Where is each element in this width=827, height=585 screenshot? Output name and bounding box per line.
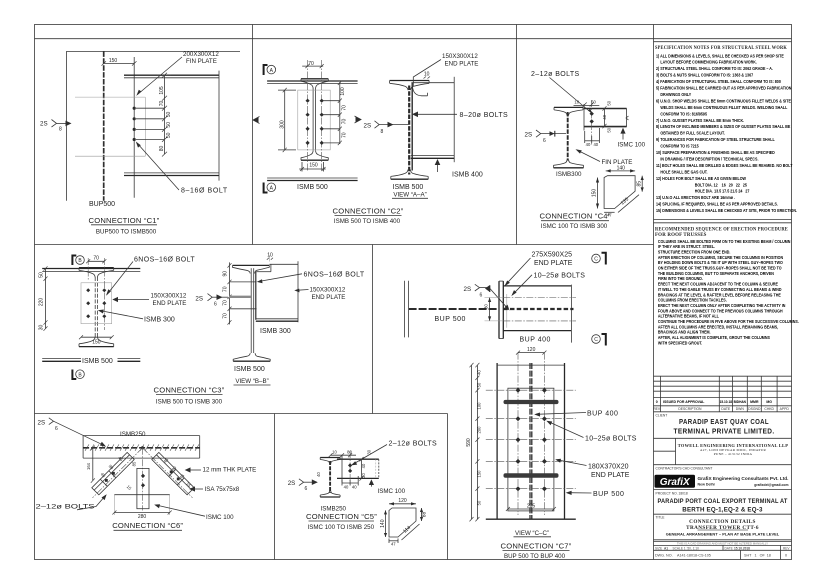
svg-text:15.10.18: 15.10.18 bbox=[720, 400, 733, 404]
revision table vertical lines bbox=[661, 376, 778, 412]
top row bottom line bbox=[35, 244, 654, 246]
beam end verticals bbox=[82, 436, 84, 459]
svg-text:70: 70 bbox=[222, 313, 228, 319]
svg-text:ISMB 500: ISMB 500 bbox=[393, 184, 424, 191]
ISMB500 plan beam top flange lines bbox=[267, 80, 358, 82]
svg-text:PROJECT NO. 18018: PROJECT NO. 18018 bbox=[656, 491, 688, 495]
ISMB300 web dashed bbox=[567, 112, 569, 161]
dim extension verticals for 280 bbox=[113, 495, 115, 515]
towell box internal cells bbox=[675, 438, 677, 464]
leader arrow to fin plate bbox=[138, 57, 183, 95]
ISMB500 beam bottom flange bbox=[124, 172, 219, 174]
svg-text:590: 590 bbox=[466, 438, 472, 447]
svg-text:2S: 2S bbox=[40, 121, 48, 128]
svg-text:MG: MG bbox=[766, 400, 772, 404]
svg-text:80: 80 bbox=[347, 450, 352, 455]
divider C5|C7 bbox=[447, 414, 449, 560]
svg-text:9) TOLERANCES FOR FABRICATION: 9) TOLERANCES FOR FABRICATION OF STEEL S… bbox=[656, 137, 775, 142]
svg-text:BUP 500 TO BUP 400: BUP 500 TO BUP 400 bbox=[504, 553, 566, 560]
dim 150 left bbox=[597, 178, 599, 209]
svg-text:DWN: DWN bbox=[736, 407, 745, 411]
ISMB500 beam top flange bbox=[124, 74, 219, 76]
svg-text:100: 100 bbox=[477, 402, 482, 410]
bolt row centerlines bbox=[486, 389, 576, 391]
dim 590 outer bbox=[471, 365, 473, 519]
right dim chain bbox=[339, 82, 341, 144]
svg-text:GrafiX Engineering Consultants: GrafiX Engineering Consultants Pvt. Ltd. bbox=[698, 476, 789, 481]
svg-text:GrafiX: GrafiX bbox=[660, 477, 691, 488]
bolts 10-25dia bbox=[516, 388, 547, 492]
svg-text:47: 47 bbox=[391, 541, 396, 546]
section bottom flange tee bbox=[79, 346, 114, 348]
left small dim 164 bbox=[92, 448, 94, 481]
fin plate edge bbox=[341, 455, 343, 483]
svg-text:280: 280 bbox=[138, 514, 147, 520]
svg-text:FOR ROOF TRUSSES: FOR ROOF TRUSSES bbox=[655, 233, 707, 238]
svg-text:6: 6 bbox=[214, 301, 217, 307]
notes column divider bbox=[653, 25, 655, 560]
svg-text:50: 50 bbox=[166, 112, 172, 118]
ISMB500 column top flange tee bbox=[233, 264, 270, 266]
svg-text:TITLE: TITLE bbox=[656, 515, 666, 519]
svg-text:150X300X12: 150X300X12 bbox=[151, 293, 187, 300]
svg-text:30: 30 bbox=[39, 325, 45, 331]
end plate detail pentagon bbox=[389, 508, 416, 537]
svg-text:ISMB 500: ISMB 500 bbox=[82, 358, 113, 365]
svg-text:8: 8 bbox=[381, 129, 384, 135]
svg-text:70: 70 bbox=[93, 256, 99, 262]
svg-text:8–16Ø BOLT: 8–16Ø BOLT bbox=[181, 188, 228, 195]
svg-text:BUP 400: BUP 400 bbox=[587, 410, 618, 417]
end plate / ISMB400 top edge bbox=[411, 82, 454, 84]
section marker B bottom bbox=[72, 370, 76, 380]
svg-text:TERMINAL PRIVATE LIMITED.: TERMINAL PRIVATE LIMITED. bbox=[674, 428, 775, 435]
svg-text:PARADIP PORT COAL EXPORT TERMI: PARADIP PORT COAL EXPORT TERMINAL AT bbox=[658, 498, 788, 505]
revision row 0 bbox=[656, 400, 773, 404]
svg-text:200: 200 bbox=[477, 426, 482, 434]
BUP400 web dashed with bolts bbox=[503, 308, 573, 310]
svg-text:C: C bbox=[594, 257, 598, 263]
svg-text:150X300X12: 150X300X12 bbox=[442, 53, 478, 60]
svg-text:10: 10 bbox=[267, 252, 273, 258]
svg-text:SHT 1 OF 18: SHT 1 OF 18 bbox=[744, 554, 771, 558]
svg-text:CHKD: CHKD bbox=[764, 407, 774, 411]
svg-text:200X300X12: 200X300X12 bbox=[183, 51, 219, 58]
svg-text:300: 300 bbox=[279, 120, 285, 129]
spec notes box top line bbox=[654, 41, 792, 43]
ISMC100 channel outline bbox=[584, 108, 627, 110]
bolt centerline vertical bbox=[591, 100, 593, 146]
svg-text:C: C bbox=[594, 337, 598, 343]
fin plate detail pentagon bbox=[604, 176, 635, 209]
svg-text:40: 40 bbox=[352, 485, 357, 490]
bolts 2-12dia bbox=[348, 463, 352, 473]
section marker A top bbox=[264, 65, 268, 75]
svg-text:END PLATE: END PLATE bbox=[591, 472, 630, 479]
svg-text:ISMB 300: ISMB 300 bbox=[144, 317, 175, 324]
svg-text:IN DRAWING / ITEM DESCRIPTION: IN DRAWING / ITEM DESCRIPTION / TECHNICA… bbox=[660, 156, 758, 161]
svg-text:MMR: MMR bbox=[750, 400, 759, 404]
incoming ISMB300 section top flange tee bbox=[79, 267, 114, 269]
column top edge bbox=[497, 364, 564, 366]
svg-text:CONNECTION “C5”: CONNECTION “C5” bbox=[306, 512, 377, 521]
beam flange hatched dark line bbox=[83, 447, 200, 449]
svg-text:DATE: DATE bbox=[725, 546, 733, 550]
fin plate light outline bbox=[75, 96, 145, 98]
fin plate edge vertical bbox=[133, 57, 135, 198]
svg-text:40: 40 bbox=[316, 472, 321, 477]
svg-text:ISMB 400: ISMB 400 bbox=[452, 172, 483, 179]
bolt column centerlines bbox=[306, 60, 308, 171]
mid row bottom line bbox=[35, 413, 448, 415]
ISMB400 right end bbox=[453, 77, 455, 162]
svg-text:105: 105 bbox=[159, 86, 165, 95]
svg-text:BUP500: BUP500 bbox=[89, 201, 115, 208]
dim 88 right bbox=[421, 508, 423, 521]
svg-text:CONNECTION “C6”: CONNECTION “C6” bbox=[112, 521, 183, 530]
bolt centerline bbox=[349, 451, 351, 485]
svg-text:70: 70 bbox=[159, 101, 165, 107]
svg-text:2–12ø BOLTS: 2–12ø BOLTS bbox=[36, 504, 95, 511]
bolts on vertical member bbox=[141, 474, 145, 478]
svg-text:6NOS–16Ø BOLT: 6NOS–16Ø BOLT bbox=[304, 271, 365, 278]
right brace ISA 75x75x8 bbox=[152, 452, 194, 494]
dim 10 top bbox=[268, 255, 270, 262]
ISMB500 plan beam bottom flange lines (gap for label) bbox=[42, 357, 81, 359]
ISMB300 bottom flange tee bbox=[554, 167, 584, 169]
left dim chain bbox=[476, 365, 478, 519]
dim 150 bottom bbox=[299, 168, 326, 170]
bolt centerlines bbox=[87, 258, 89, 280]
svg-text:150X300X12: 150X300X12 bbox=[310, 287, 346, 294]
svg-text:12) HOLES FOR BOLT SHALL BE AS: 12) HOLES FOR BOLT SHALL BE AS GIVEN BEL… bbox=[656, 176, 746, 181]
svg-text:30: 30 bbox=[361, 473, 366, 478]
ISMB250 top flange tee bbox=[320, 457, 340, 459]
ISMB300 top flange tee bbox=[554, 106, 583, 108]
svg-text:ISMB 300: ISMB 300 bbox=[260, 328, 291, 335]
svg-text:CONNECTION “C1”: CONNECTION “C1” bbox=[89, 216, 160, 225]
svg-text:10: 10 bbox=[574, 100, 579, 105]
svg-text:ISMB 500: ISMB 500 bbox=[234, 366, 265, 373]
svg-text:70: 70 bbox=[342, 119, 348, 125]
BUP500 flange plate vertical pair bbox=[404, 281, 406, 338]
bolts 2-12dia bbox=[590, 112, 594, 124]
svg-text:LAYOUT BEFORE COMMENCING FABRI: LAYOUT BEFORE COMMENCING FABRICATION WOR… bbox=[660, 59, 757, 64]
svg-text:2–12ø BOLTS: 2–12ø BOLTS bbox=[389, 441, 438, 448]
svg-text:A1: A1 bbox=[664, 546, 668, 550]
leader to end plate bbox=[413, 60, 441, 87]
revision header row bbox=[653, 407, 789, 411]
svg-text:FIN PLATE: FIN PLATE bbox=[186, 58, 217, 65]
svg-text:GENERAL ARRANGEMENT – PLAN: GENERAL ARRANGEMENT – PLAN AT BASE PLATE… bbox=[666, 532, 780, 537]
divider C3|middle bbox=[372, 245, 374, 414]
svg-text:0: 0 bbox=[785, 554, 787, 558]
svg-text:5) FABRICATION SHALL BE CARRIE: 5) FABRICATION SHALL BE CARRIED OUT AS P… bbox=[656, 85, 792, 90]
svg-text:ISSUED FOR APPROVAL: ISSUED FOR APPROVAL bbox=[663, 400, 705, 404]
svg-text:40: 40 bbox=[593, 142, 598, 147]
svg-text:40: 40 bbox=[586, 142, 591, 147]
section marker B top bbox=[72, 256, 76, 266]
dimension chain vertical line bbox=[163, 75, 165, 155]
svg-text:0: 0 bbox=[656, 400, 658, 404]
svg-text:6: 6 bbox=[55, 426, 58, 432]
svg-text:VIEW “A–A”: VIEW “A–A” bbox=[393, 191, 426, 198]
svg-text:150: 150 bbox=[592, 189, 598, 198]
ISMC100 channel outline bbox=[337, 458, 379, 460]
column web dashed dark bbox=[408, 86, 410, 175]
leader to bottom bolt bbox=[137, 143, 179, 190]
BUP400 beam outline bbox=[503, 285, 571, 287]
svg-text:50: 50 bbox=[477, 382, 482, 387]
bolts 6NOS-16dia bbox=[86, 288, 106, 318]
left brace ISA 75x75x8 bbox=[92, 452, 134, 494]
svg-text:40: 40 bbox=[344, 485, 349, 490]
svg-text:DSGND: DSGND bbox=[748, 407, 761, 411]
svg-text:10) SURFACE PREPARATION & FINI: 10) SURFACE PREPARATION & FINISHING SHAL… bbox=[656, 150, 775, 155]
svg-text:REV: REV bbox=[653, 407, 661, 411]
center web dashed dark bbox=[529, 363, 531, 519]
svg-text:DESCRIPTION: DESCRIPTION bbox=[678, 407, 702, 411]
svg-text:180X370X20: 180X370X20 bbox=[588, 463, 629, 470]
svg-text:6: 6 bbox=[480, 293, 483, 299]
svg-text:13) U.N.O ALL ERECTION BOLT AR: 13) U.N.O ALL ERECTION BOLT ARE 16mmø . bbox=[656, 195, 735, 200]
svg-text:50: 50 bbox=[39, 272, 45, 278]
svg-text:ISMC 100: ISMC 100 bbox=[206, 514, 234, 521]
svg-text:50: 50 bbox=[166, 132, 172, 138]
svg-text:BERTH EQ-1,EQ-2 & EQ-3: BERTH EQ-1,EQ-2 & EQ-3 bbox=[682, 506, 763, 513]
dim 140 left bbox=[385, 510, 387, 537]
svg-text:VIEW “C–C”: VIEW “C–C” bbox=[515, 530, 549, 537]
spec box bottom double line bbox=[654, 219, 792, 221]
svg-text:14) SPLICING, IF REQUIRED, SHA: 14) SPLICING, IF REQUIRED, SHALL BE AS P… bbox=[656, 201, 778, 206]
svg-text:10–25ø BOLTS: 10–25ø BOLTS bbox=[585, 436, 637, 443]
svg-text:TOWELL ENGINEERING INTERNATI: TOWELL ENGINEERING INTERNATIONAL LLP bbox=[678, 443, 789, 448]
svg-text:8: 8 bbox=[59, 127, 62, 133]
svg-text:DRAWINGS ONLY: DRAWINGS ONLY bbox=[660, 92, 691, 97]
section bottom flange tee bbox=[301, 159, 328, 161]
svg-text:CONTRACTOR'S CHD CONSULTANT: CONTRACTOR'S CHD CONSULTANT bbox=[656, 466, 713, 470]
svg-text:6) U.N.O. SHOP WELDS SHALL BE: 6) U.N.O. SHOP WELDS SHALL BE 6mm CONTIN… bbox=[656, 98, 791, 103]
svg-text:15) DIMENSIONS & LEVELS SHALL: 15) DIMENSIONS & LEVELS SHALL BE CHECKED… bbox=[656, 208, 797, 213]
svg-text:150: 150 bbox=[477, 470, 482, 478]
column web solid pair bbox=[250, 268, 252, 353]
BUP500 column top line bbox=[66, 50, 240, 52]
dim 120 top bbox=[389, 503, 416, 505]
end plate solid vertical bbox=[411, 83, 413, 171]
svg-text:70: 70 bbox=[342, 105, 348, 111]
svg-text:220: 220 bbox=[39, 298, 45, 307]
svg-text:2–12ø BOLTS: 2–12ø BOLTS bbox=[531, 71, 580, 78]
svg-text:BIDHAN: BIDHAN bbox=[734, 400, 747, 404]
svg-text:4) FABRICATION OF STRUCTURAL S: 4) FABRICATION OF STRUCTURAL STEEL SHALL… bbox=[656, 79, 781, 84]
svg-text:85: 85 bbox=[637, 181, 643, 187]
section marker A bottom bbox=[264, 183, 268, 193]
fin plate edge between bbox=[583, 104, 585, 131]
ISMB250 beam top line bbox=[83, 435, 200, 437]
section marker C top bbox=[592, 254, 601, 263]
svg-text:PUNE – 413132 INDIA: PUNE – 413132 INDIA bbox=[714, 452, 753, 456]
divider C1|C2 bbox=[252, 25, 254, 245]
bottom dim 40 40 bbox=[585, 140, 600, 142]
svg-text:A141-18018-CS-105: A141-18018-CS-105 bbox=[677, 554, 711, 558]
svg-text:2S: 2S bbox=[195, 295, 203, 302]
svg-text:50: 50 bbox=[606, 127, 611, 132]
right dim chain 50/30 bbox=[604, 108, 606, 126]
svg-text:15.10.2018: 15.10.2018 bbox=[734, 546, 750, 550]
bolt gauge lines bbox=[136, 107, 164, 109]
svg-text:10–25ø BOLTS: 10–25ø BOLTS bbox=[534, 272, 586, 279]
svg-text:2S: 2S bbox=[364, 122, 372, 129]
svg-text:12 mm THK PLATE: 12 mm THK PLATE bbox=[203, 466, 257, 473]
svg-text:70: 70 bbox=[308, 61, 314, 67]
svg-text:140: 140 bbox=[617, 165, 626, 171]
svg-text:40: 40 bbox=[361, 463, 366, 468]
end plate light rectangle bbox=[81, 283, 112, 324]
svg-text:APPD: APPD bbox=[780, 407, 790, 411]
svg-text:2) STRUCTURAL STEEL SHALL CONF: 2) STRUCTURAL STEEL SHALL CONFORM TO IS:… bbox=[656, 66, 773, 71]
svg-text:2S: 2S bbox=[464, 286, 472, 293]
svg-text:BUP 500: BUP 500 bbox=[593, 491, 624, 498]
svg-text:grafixdel@gmail.com: grafixdel@gmail.com bbox=[754, 483, 788, 487]
svg-text:8–20ø BOLTS: 8–20ø BOLTS bbox=[460, 112, 509, 119]
dim 205 bottom bbox=[508, 508, 554, 510]
leader to bolt bbox=[107, 262, 133, 295]
svg-text:40: 40 bbox=[602, 114, 607, 119]
GrafiX logo bbox=[655, 475, 696, 488]
svg-text:RECOMMENDED SEQUENCE OF ERECTI: RECOMMENDED SEQUENCE OF ERECTION PROCEDU… bbox=[655, 228, 788, 233]
ISMB250 beam bottom line bbox=[83, 457, 200, 459]
revision table horizontal lines bbox=[654, 376, 792, 412]
svg-text:WITH SPECIFIED GROUT.: WITH SPECIFIED GROUT. bbox=[658, 340, 702, 345]
top dims 10 40 bbox=[574, 104, 600, 106]
svg-text:205: 205 bbox=[527, 503, 536, 509]
svg-text:ISMB250: ISMB250 bbox=[120, 431, 146, 438]
svg-text:ISMB 500: ISMB 500 bbox=[297, 184, 328, 191]
svg-text:1) ALL DIMENSIONS & LEVELS, SH: 1) ALL DIMENSIONS & LEVELS, SHALL BE CHE… bbox=[656, 53, 784, 58]
dwg no row bbox=[655, 554, 787, 558]
svg-text:DATE: DATE bbox=[721, 407, 731, 411]
svg-text:70: 70 bbox=[222, 300, 228, 306]
svg-text:ISMB 500 TO ISMB 400: ISMB 500 TO ISMB 400 bbox=[334, 218, 401, 225]
svg-text:ISA 75x75x8: ISA 75x75x8 bbox=[205, 486, 240, 493]
dim 135 diagonal bbox=[618, 195, 639, 213]
divider C6|C5 bbox=[274, 414, 276, 560]
stiffener bar top bbox=[504, 400, 559, 404]
svg-text:275X590X25: 275X590X25 bbox=[532, 251, 573, 258]
dim 280 bbox=[114, 512, 169, 514]
svg-text:2S: 2S bbox=[525, 131, 533, 138]
dim 150 at top bbox=[104, 62, 135, 64]
top dims 10 80 bbox=[331, 454, 357, 456]
stiffener bar bottom bbox=[504, 473, 559, 478]
svg-text:BOLT DIA. 12 16 20 22: BOLT DIA. 12 16 20 22 25 bbox=[695, 182, 748, 187]
svg-text:New Delhi: New Delhi bbox=[698, 482, 715, 486]
ground line bbox=[486, 518, 576, 520]
bolt gauge lines to right dim bbox=[323, 101, 340, 143]
svg-text:3) BOLTS & NUTS SHALL CONFORM: 3) BOLTS & NUTS SHALL CONFORM TO IS: 136… bbox=[656, 72, 753, 77]
svg-text:CONNECTION “C2”: CONNECTION “C2” bbox=[333, 206, 404, 215]
svg-text:VIEW “B–B”: VIEW “B–B” bbox=[235, 378, 268, 385]
svg-text:ISMC 100 TO ISMB 250: ISMC 100 TO ISMB 250 bbox=[308, 524, 375, 531]
divider C2|C4 bbox=[516, 25, 518, 245]
svg-text:8) LENGTH OF INCLINED MEMBERS: 8) LENGTH OF INCLINED MEMBERS & SIZES OF… bbox=[656, 124, 791, 129]
svg-text:85: 85 bbox=[132, 461, 137, 466]
svg-text:ISMC 100: ISMC 100 bbox=[618, 142, 646, 149]
channel broken end bbox=[378, 459, 380, 478]
dim 70 top bbox=[88, 260, 104, 262]
cope fillet curve bbox=[413, 87, 428, 96]
end plate light rectangle bbox=[298, 90, 330, 150]
vertical member ISMC100 bbox=[137, 468, 149, 508]
svg-text:100: 100 bbox=[340, 87, 346, 96]
svg-text:150: 150 bbox=[92, 339, 101, 345]
svg-text:90: 90 bbox=[222, 271, 228, 277]
node centerlines bbox=[142, 448, 144, 511]
svg-text:6: 6 bbox=[543, 138, 546, 144]
dim 114 diagonal bbox=[402, 524, 420, 540]
svg-text:6NOS–16Ø BOLT: 6NOS–16Ø BOLT bbox=[134, 256, 195, 263]
svg-text:BUP500 TO ISMB500: BUP500 TO ISMB500 bbox=[96, 229, 157, 236]
svg-text:SPECIFICATION NOTES FOR STRUCT: SPECIFICATION NOTES FOR STRUCTURAL STEEL… bbox=[655, 45, 787, 51]
ISMB500 plan beam bottom flange lines bbox=[267, 177, 358, 179]
svg-text:150: 150 bbox=[109, 58, 118, 64]
svg-text:END PLATE: END PLATE bbox=[312, 294, 346, 301]
svg-text:CONFORM TO IS: 816/9595: CONFORM TO IS: 816/9595 bbox=[660, 111, 707, 116]
ISMB300 top edge with cope step bbox=[269, 263, 298, 265]
ISMB400 bottom flange bbox=[411, 155, 454, 157]
svg-text:50: 50 bbox=[477, 500, 482, 505]
size/scale/date row bbox=[655, 546, 790, 550]
end plate vertical pair bbox=[498, 281, 500, 339]
ISMB500 plan beam top flange lines bbox=[42, 268, 140, 270]
svg-text:CONNECTION “C4”: CONNECTION “C4” bbox=[540, 212, 611, 221]
svg-text:ISMB300: ISMB300 bbox=[556, 171, 582, 178]
end plate inner rectangle bbox=[508, 388, 554, 511]
column bottom flange tee bbox=[391, 178, 428, 180]
erection procedure body bbox=[658, 239, 799, 346]
svg-text:REV: REV bbox=[783, 546, 790, 550]
BUP500 web dashed horizontal bbox=[409, 308, 499, 310]
BUP500 column left flange line bbox=[65, 51, 67, 200]
ISMB500 beam right end bbox=[218, 71, 220, 181]
bolts 8-16dia bbox=[133, 107, 136, 141]
dim 47 bottom bbox=[389, 540, 398, 542]
svg-text:END PLATE: END PLATE bbox=[445, 60, 479, 67]
channel broken end (dashed) bbox=[626, 109, 628, 127]
svg-text:DWG. NO.: DWG. NO. bbox=[655, 554, 673, 558]
svg-text:HOLE SHALL BE GAS CUT.: HOLE SHALL BE GAS CUT. bbox=[660, 169, 707, 174]
svg-text:2S: 2S bbox=[38, 419, 46, 426]
svg-text:HOLE DIA. 13.5 17.5 21.5 24: HOLE DIA. 13.5 17.5 21.5 24 27 bbox=[695, 188, 750, 193]
svg-text:30: 30 bbox=[484, 304, 489, 309]
column outer edges bbox=[496, 363, 498, 519]
left dim chain bbox=[45, 269, 47, 329]
svg-text:10: 10 bbox=[424, 72, 430, 78]
beam break chevrons bbox=[253, 117, 260, 124]
svg-text:70: 70 bbox=[342, 132, 348, 138]
svg-text:CONNECTION “C7”: CONNECTION “C7” bbox=[501, 541, 572, 550]
dim ticks bbox=[162, 73, 167, 157]
svg-text:2S: 2S bbox=[288, 480, 296, 487]
leader to bolts bbox=[550, 78, 592, 113]
svg-text:CONFORM TO IS 7215: CONFORM TO IS 7215 bbox=[660, 143, 699, 148]
svg-text:SCALE 1 :50, 1:10: SCALE 1 :50, 1:10 bbox=[673, 546, 700, 550]
svg-text:BUP 500: BUP 500 bbox=[435, 316, 466, 323]
dim 150 bottom bbox=[81, 336, 112, 338]
section web dashed bbox=[94, 277, 96, 338]
dim 47 bottom bbox=[604, 211, 615, 213]
ISMB250 web dashed bbox=[329, 461, 331, 493]
